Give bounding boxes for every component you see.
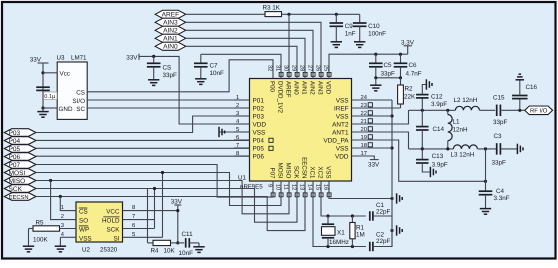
capacitor C15 33pF — [497, 105, 501, 117]
svg-text:C3: C3 — [494, 133, 503, 140]
net label RF I/O — [525, 106, 553, 115]
wire R5 to U2 WP — [60, 228, 77, 230]
svg-text:P06: P06 — [253, 153, 265, 160]
svg-text:26: 26 — [315, 65, 321, 71]
svg-text:33pF: 33pF — [493, 119, 508, 126]
svg-text:C14: C14 — [433, 126, 445, 133]
node C6 top — [399, 53, 402, 56]
svg-text:33pF: 33pF — [492, 160, 507, 167]
svg-text:C6: C6 — [409, 62, 418, 69]
svg-text:R5: R5 — [36, 219, 45, 226]
svg-text:AIN3: AIN3 — [163, 20, 178, 27]
svg-text:AIN1: AIN1 — [301, 81, 308, 95]
svg-text:Vcc: Vcc — [60, 70, 71, 77]
svg-text:MISO: MISO — [285, 163, 292, 179]
svg-text:ANT2: ANT2 — [332, 121, 349, 128]
svg-text:12nH: 12nH — [453, 126, 469, 133]
svg-text:P01: P01 — [253, 97, 265, 104]
wire U2 SCK — [123, 228, 155, 230]
U1 pin 6 stub — [234, 139, 250, 141]
capacitor C14 — [421, 110, 423, 126]
capacitor C10 100nF — [359, 14, 361, 23]
ground (C11) — [193, 247, 204, 253]
wire SCK riser — [154, 189, 156, 229]
U1 pin 2 stub — [234, 107, 250, 109]
svg-text:30: 30 — [283, 65, 289, 71]
U1 pin 8 stub — [234, 155, 250, 157]
capacitor C2 22pF — [370, 242, 373, 252]
svg-text:EECSN: EECSN — [9, 194, 29, 201]
IC U3 LM71 body — [57, 62, 87, 119]
svg-text:P05: P05 — [253, 145, 265, 152]
svg-text:SCK: SCK — [9, 186, 23, 193]
wire CS to U1 P00 — [87, 60, 273, 92]
wire SI/O to U1 P01 — [87, 99, 249, 101]
svg-text:VSS: VSS — [79, 235, 92, 242]
svg-text:L3 12nH: L3 12nH — [451, 151, 475, 158]
svg-text:SCK: SCK — [293, 166, 300, 180]
svg-text:CS: CS — [163, 64, 172, 71]
wire U1 VSS pin16 to ground — [329, 181, 392, 199]
node C5 top — [374, 53, 377, 56]
ground (U3) — [42, 108, 44, 111]
svg-text:C7: C7 — [210, 63, 219, 70]
capacitor C6 4.7nF — [400, 54, 402, 63]
node crystal top — [326, 214, 329, 217]
svg-text:0.1µ: 0.1µ — [44, 94, 56, 100]
svg-text:13: 13 — [299, 184, 305, 190]
svg-text:SI/O: SI/O — [72, 98, 85, 105]
wire XC1 rail — [313, 181, 366, 247]
svg-text:10: 10 — [275, 184, 281, 190]
wire U2 SI — [123, 236, 163, 238]
svg-text:SCK: SCK — [107, 227, 121, 234]
ground (C9) — [331, 42, 342, 48]
wire SC to U1 P02 — [87, 107, 249, 109]
svg-text:31: 31 — [275, 65, 281, 71]
svg-text:27: 27 — [307, 65, 313, 71]
svg-text:P02: P02 — [253, 105, 265, 112]
wire U3 Vcc — [43, 72, 57, 74]
svg-text:C10: C10 — [368, 23, 380, 30]
svg-text:C11: C11 — [182, 231, 194, 238]
node U3 GND — [41, 106, 44, 109]
svg-text:P07: P07 — [269, 167, 276, 179]
svg-text:MOSI: MOSI — [9, 170, 26, 177]
net label MISO — [4, 177, 36, 185]
wire C4 node to L3/C3 — [485, 149, 487, 181]
svg-text:P07: P07 — [9, 162, 21, 169]
svg-text:22K: 22K — [404, 94, 416, 101]
svg-text:28: 28 — [299, 65, 305, 71]
svg-text:P00: P00 — [269, 81, 276, 93]
svg-text:R4: R4 — [151, 247, 160, 254]
svg-text:12: 12 — [291, 184, 297, 190]
svg-text:1nF: 1nF — [345, 30, 356, 37]
svg-text:IREF: IREF — [334, 105, 349, 112]
node gnd B — [390, 229, 393, 232]
resistor R1 1M — [351, 216, 353, 223]
svg-text:SI: SI — [114, 235, 120, 242]
svg-text:100K: 100K — [33, 237, 49, 244]
svg-text:P03: P03 — [9, 130, 21, 137]
svg-text:6: 6 — [236, 134, 239, 141]
svg-text:MISO: MISO — [9, 178, 26, 185]
U1 pin 7 stub — [234, 147, 250, 149]
resistor R3 — [265, 12, 282, 17]
svg-text:3.3nF: 3.3nF — [494, 195, 510, 202]
net label EECSN — [4, 193, 36, 201]
svg-text:HOLD: HOLD — [102, 218, 120, 225]
svg-text:3.9pF: 3.9pF — [431, 101, 447, 108]
svg-text:R3 1K: R3 1K — [263, 5, 281, 12]
svg-text:C12: C12 — [431, 93, 443, 100]
svg-text:R2: R2 — [405, 86, 414, 93]
node MISO/SO — [49, 179, 52, 182]
wire DVDD rail to C7 — [201, 54, 281, 78]
U1 pin 5 stub — [234, 131, 250, 133]
ground (CS cap) — [148, 80, 159, 86]
capacitor C11 10nF — [178, 242, 184, 244]
capacitor C4 3.3nF — [485, 181, 487, 191]
svg-text:WP: WP — [79, 227, 89, 234]
net label AREF — [155, 10, 186, 18]
svg-text:AIN3: AIN3 — [317, 81, 324, 95]
svg-text:XC2: XC2 — [317, 166, 324, 179]
node VCC/33V — [176, 209, 179, 212]
svg-text:MOSI: MOSI — [277, 163, 284, 179]
wire R2 to IREF — [400, 104, 402, 108]
ground (R5) — [23, 246, 34, 252]
svg-text:100nF: 100nF — [368, 30, 386, 37]
node L1 top — [446, 109, 449, 112]
node gnd A — [390, 197, 393, 200]
svg-text:C13: C13 — [432, 153, 444, 160]
ground (U1 VSS pin5) — [219, 131, 250, 133]
wire RF bottom rail — [409, 148, 454, 150]
svg-text:P03: P03 — [253, 113, 265, 120]
wire MOSI net — [36, 173, 281, 206]
svg-text:AIN0: AIN0 — [293, 81, 300, 95]
svg-text:VDD: VDD — [325, 81, 332, 95]
U1 pin 4 stub — [234, 123, 250, 125]
svg-text:10K: 10K — [164, 247, 176, 254]
resistor R5 100K — [33, 226, 60, 231]
svg-text:L2 12nH: L2 12nH — [454, 97, 478, 104]
svg-text:SO: SO — [79, 218, 88, 225]
svg-text:GND: GND — [59, 106, 73, 113]
net label MOSI — [4, 169, 36, 177]
wire XC2 rail — [321, 181, 366, 216]
wire U1 IREF pin23 — [352, 107, 401, 109]
svg-text:VSS: VSS — [336, 145, 349, 152]
node C12/C14 — [421, 109, 424, 112]
ground (C12) — [426, 79, 432, 89]
ground (C7) — [195, 79, 206, 85]
net label P06 — [4, 153, 36, 161]
capacitor C16 — [519, 99, 521, 111]
svg-text:15: 15 — [315, 184, 321, 190]
svg-text:AREF: AREF — [162, 12, 180, 19]
capacitor 0.1u — [36, 87, 50, 90]
wire P07 net — [36, 165, 273, 198]
svg-text:14: 14 — [307, 184, 313, 190]
node R4/C11 — [176, 241, 179, 244]
net label P07 — [4, 161, 36, 169]
svg-text:VSS: VSS — [325, 166, 332, 178]
wire P04 net — [36, 139, 250, 141]
svg-text:VSS: VSS — [253, 129, 266, 136]
wire EECSN to U2 CS — [60, 197, 76, 211]
inductor L2 12nH — [455, 106, 479, 110]
svg-text:VDD_PA: VDD_PA — [323, 137, 349, 144]
svg-text:AIN2: AIN2 — [309, 81, 316, 95]
ground (C4) — [480, 209, 491, 215]
svg-text:10nF: 10nF — [179, 250, 194, 257]
wire 33V to U1 VDD pin4 — [139, 56, 250, 124]
wire U2 VCC — [123, 210, 178, 212]
svg-text:AIN0: AIN0 — [163, 44, 178, 51]
svg-text:33V: 33V — [368, 161, 380, 168]
wire AIN0 to U1 — [186, 46, 297, 78]
node R1 bottom — [351, 245, 354, 248]
svg-text:P04: P04 — [9, 138, 21, 145]
wire AIN1 to U1 — [186, 38, 305, 78]
svg-text:9: 9 — [267, 184, 273, 187]
capacitor C12 3.9pF — [421, 98, 423, 110]
svg-text:33pF: 33pF — [163, 72, 178, 79]
svg-text:CS: CS — [76, 89, 85, 96]
wire U2 VSS — [60, 236, 76, 238]
net label AIN0 — [155, 42, 186, 50]
svg-text:VSS: VSS — [336, 113, 349, 120]
wire AIN2 to U1 — [186, 30, 313, 78]
capacitor C3 33pF — [497, 143, 501, 155]
node SCK net — [153, 187, 156, 190]
node C16 — [518, 109, 521, 112]
node EECSN/CS — [59, 195, 62, 198]
svg-text:VCC: VCC — [106, 209, 120, 216]
wire RF top rail — [409, 109, 456, 111]
svg-text:32: 32 — [267, 65, 273, 71]
wire 3.3V rail to U1 pin25 VDD — [329, 54, 408, 78]
U1 pin 3 stub — [234, 115, 250, 117]
ground (C16) — [516, 74, 525, 80]
svg-text:LM71: LM71 — [71, 55, 87, 62]
svg-text:33pF: 33pF — [381, 71, 396, 78]
inductor L1 12nH — [447, 110, 449, 114]
node C4 — [484, 180, 487, 183]
wire VSS chain — [391, 100, 393, 247]
svg-text:1M: 1M — [356, 232, 365, 239]
wire MISO to U2 SO — [51, 181, 76, 220]
33V supply tick (U1 VDD pin17) — [352, 156, 375, 160]
node crystal bottom — [326, 245, 329, 248]
svg-text:X1: X1 — [337, 229, 345, 236]
capacitor C7 10nF — [200, 54, 202, 63]
svg-text:L1: L1 — [453, 118, 461, 125]
wire U3 GND — [43, 107, 57, 109]
svg-text:CS: CS — [79, 209, 88, 216]
svg-text:AIN2: AIN2 — [163, 28, 178, 35]
inductor L3 12nH — [453, 145, 477, 149]
capacitor C1 22pF — [370, 211, 373, 221]
U1 pin 1 stub — [234, 99, 250, 101]
node U3 Vcc — [41, 71, 44, 74]
node MOSI net — [161, 171, 164, 174]
capacitor CS 33pF — [153, 56, 155, 63]
svg-text:33V: 33V — [126, 54, 138, 61]
svg-text:nRF9E5: nRF9E5 — [240, 184, 263, 191]
wire AREF net — [282, 13, 360, 15]
svg-text:VDD: VDD — [253, 121, 267, 128]
svg-text:DVDD_1V2: DVDD_1V2 — [277, 81, 284, 114]
svg-text:AREF: AREF — [285, 81, 292, 98]
net label AIN2 — [155, 26, 186, 34]
wire AREF to R3 — [186, 13, 265, 15]
svg-text:3.9pF: 3.9pF — [432, 161, 448, 168]
wire P03 net — [36, 116, 250, 133]
wire P06 net — [36, 155, 250, 157]
svg-text:VSS: VSS — [336, 97, 349, 104]
svg-text:P04: P04 — [253, 137, 265, 144]
wire ANT2 to RF rail — [352, 110, 409, 124]
net label P04 — [4, 137, 36, 145]
svg-text:P05: P05 — [9, 146, 21, 153]
capacitor C9 1nF — [335, 14, 337, 23]
node AREF/pin30 — [287, 13, 290, 16]
wire P05 net — [36, 147, 250, 149]
svg-text:16MHz: 16MHz — [329, 239, 349, 246]
svg-text:11: 11 — [283, 184, 289, 190]
wire ANT1 to RF rail — [352, 132, 409, 149]
svg-text:AIN1: AIN1 — [163, 36, 178, 43]
svg-text:C9: C9 — [345, 23, 354, 30]
svg-text:VDD: VDD — [335, 153, 349, 160]
wire C5/C6 bottom — [376, 77, 401, 79]
ground (crystal A) — [397, 193, 403, 203]
svg-text:RF I/O: RF I/O — [530, 108, 548, 115]
node L3/C3 — [484, 147, 487, 150]
ground (C10) — [354, 42, 365, 48]
svg-text:P06: P06 — [9, 154, 21, 161]
svg-text:C16: C16 — [526, 84, 538, 91]
ground (U2 VSS) — [55, 246, 66, 252]
svg-text:25: 25 — [323, 65, 329, 71]
net label P03 — [4, 129, 36, 137]
svg-text:25320: 25320 — [100, 246, 118, 253]
svg-text:C4: C4 — [496, 188, 505, 195]
svg-text:22pF: 22pF — [376, 238, 391, 245]
wire AIN3 to U1 — [186, 22, 321, 78]
IC U1 nRF9E5 body — [250, 79, 352, 182]
wire EECSN net — [36, 181, 305, 231]
ground (C13) — [430, 167, 436, 177]
net label AIN3 — [155, 18, 186, 26]
svg-text:29: 29 — [291, 65, 297, 71]
svg-text:10nF: 10nF — [210, 70, 225, 77]
net label P05 — [4, 145, 36, 153]
crystal X1 16MHz — [327, 216, 329, 224]
wire AREF to U1 pin30 — [288, 14, 290, 78]
svg-text:SC: SC — [76, 106, 85, 113]
svg-text:U3: U3 — [57, 55, 65, 62]
wire U1 VSS pin24 — [352, 99, 393, 101]
net label AIN1 — [155, 34, 186, 42]
ground (crystal B) — [397, 225, 403, 235]
wire SCK net — [36, 181, 297, 222]
svg-text:4.7nF: 4.7nF — [406, 70, 422, 77]
svg-text:EECSN: EECSN — [301, 157, 308, 178]
wire VDD_PA — [352, 140, 486, 181]
wire SI riser to MOSI — [162, 173, 164, 238]
wire MISO net — [36, 181, 289, 214]
wire U2 HOLD — [123, 219, 155, 221]
wire U1 VSS pin22 — [352, 115, 393, 117]
node C9 — [335, 13, 338, 16]
svg-text:ANT1: ANT1 — [332, 129, 349, 136]
wire U1 VSS pin18 — [352, 147, 393, 149]
capacitor C13 3.9pF — [421, 149, 423, 160]
ground (C3) — [517, 144, 523, 154]
svg-text:C15: C15 — [493, 94, 505, 101]
node R1 top — [351, 214, 354, 217]
resistor R2 22K — [400, 78, 402, 85]
resistor R4 10K — [153, 240, 171, 245]
svg-text:XC1: XC1 — [309, 166, 316, 179]
ground (C5/C6) — [370, 85, 381, 91]
svg-text:22pF: 22pF — [376, 208, 391, 215]
wire R4 riser — [147, 189, 149, 243]
svg-text:16: 16 — [323, 184, 329, 190]
node CS cap — [152, 55, 155, 58]
capacitor C5 33pF — [375, 54, 377, 63]
svg-text:C5: C5 — [384, 62, 393, 69]
IC U2 25320 body — [76, 202, 123, 242]
net label SCK — [4, 185, 36, 193]
svg-text:U2: U2 — [82, 246, 90, 253]
